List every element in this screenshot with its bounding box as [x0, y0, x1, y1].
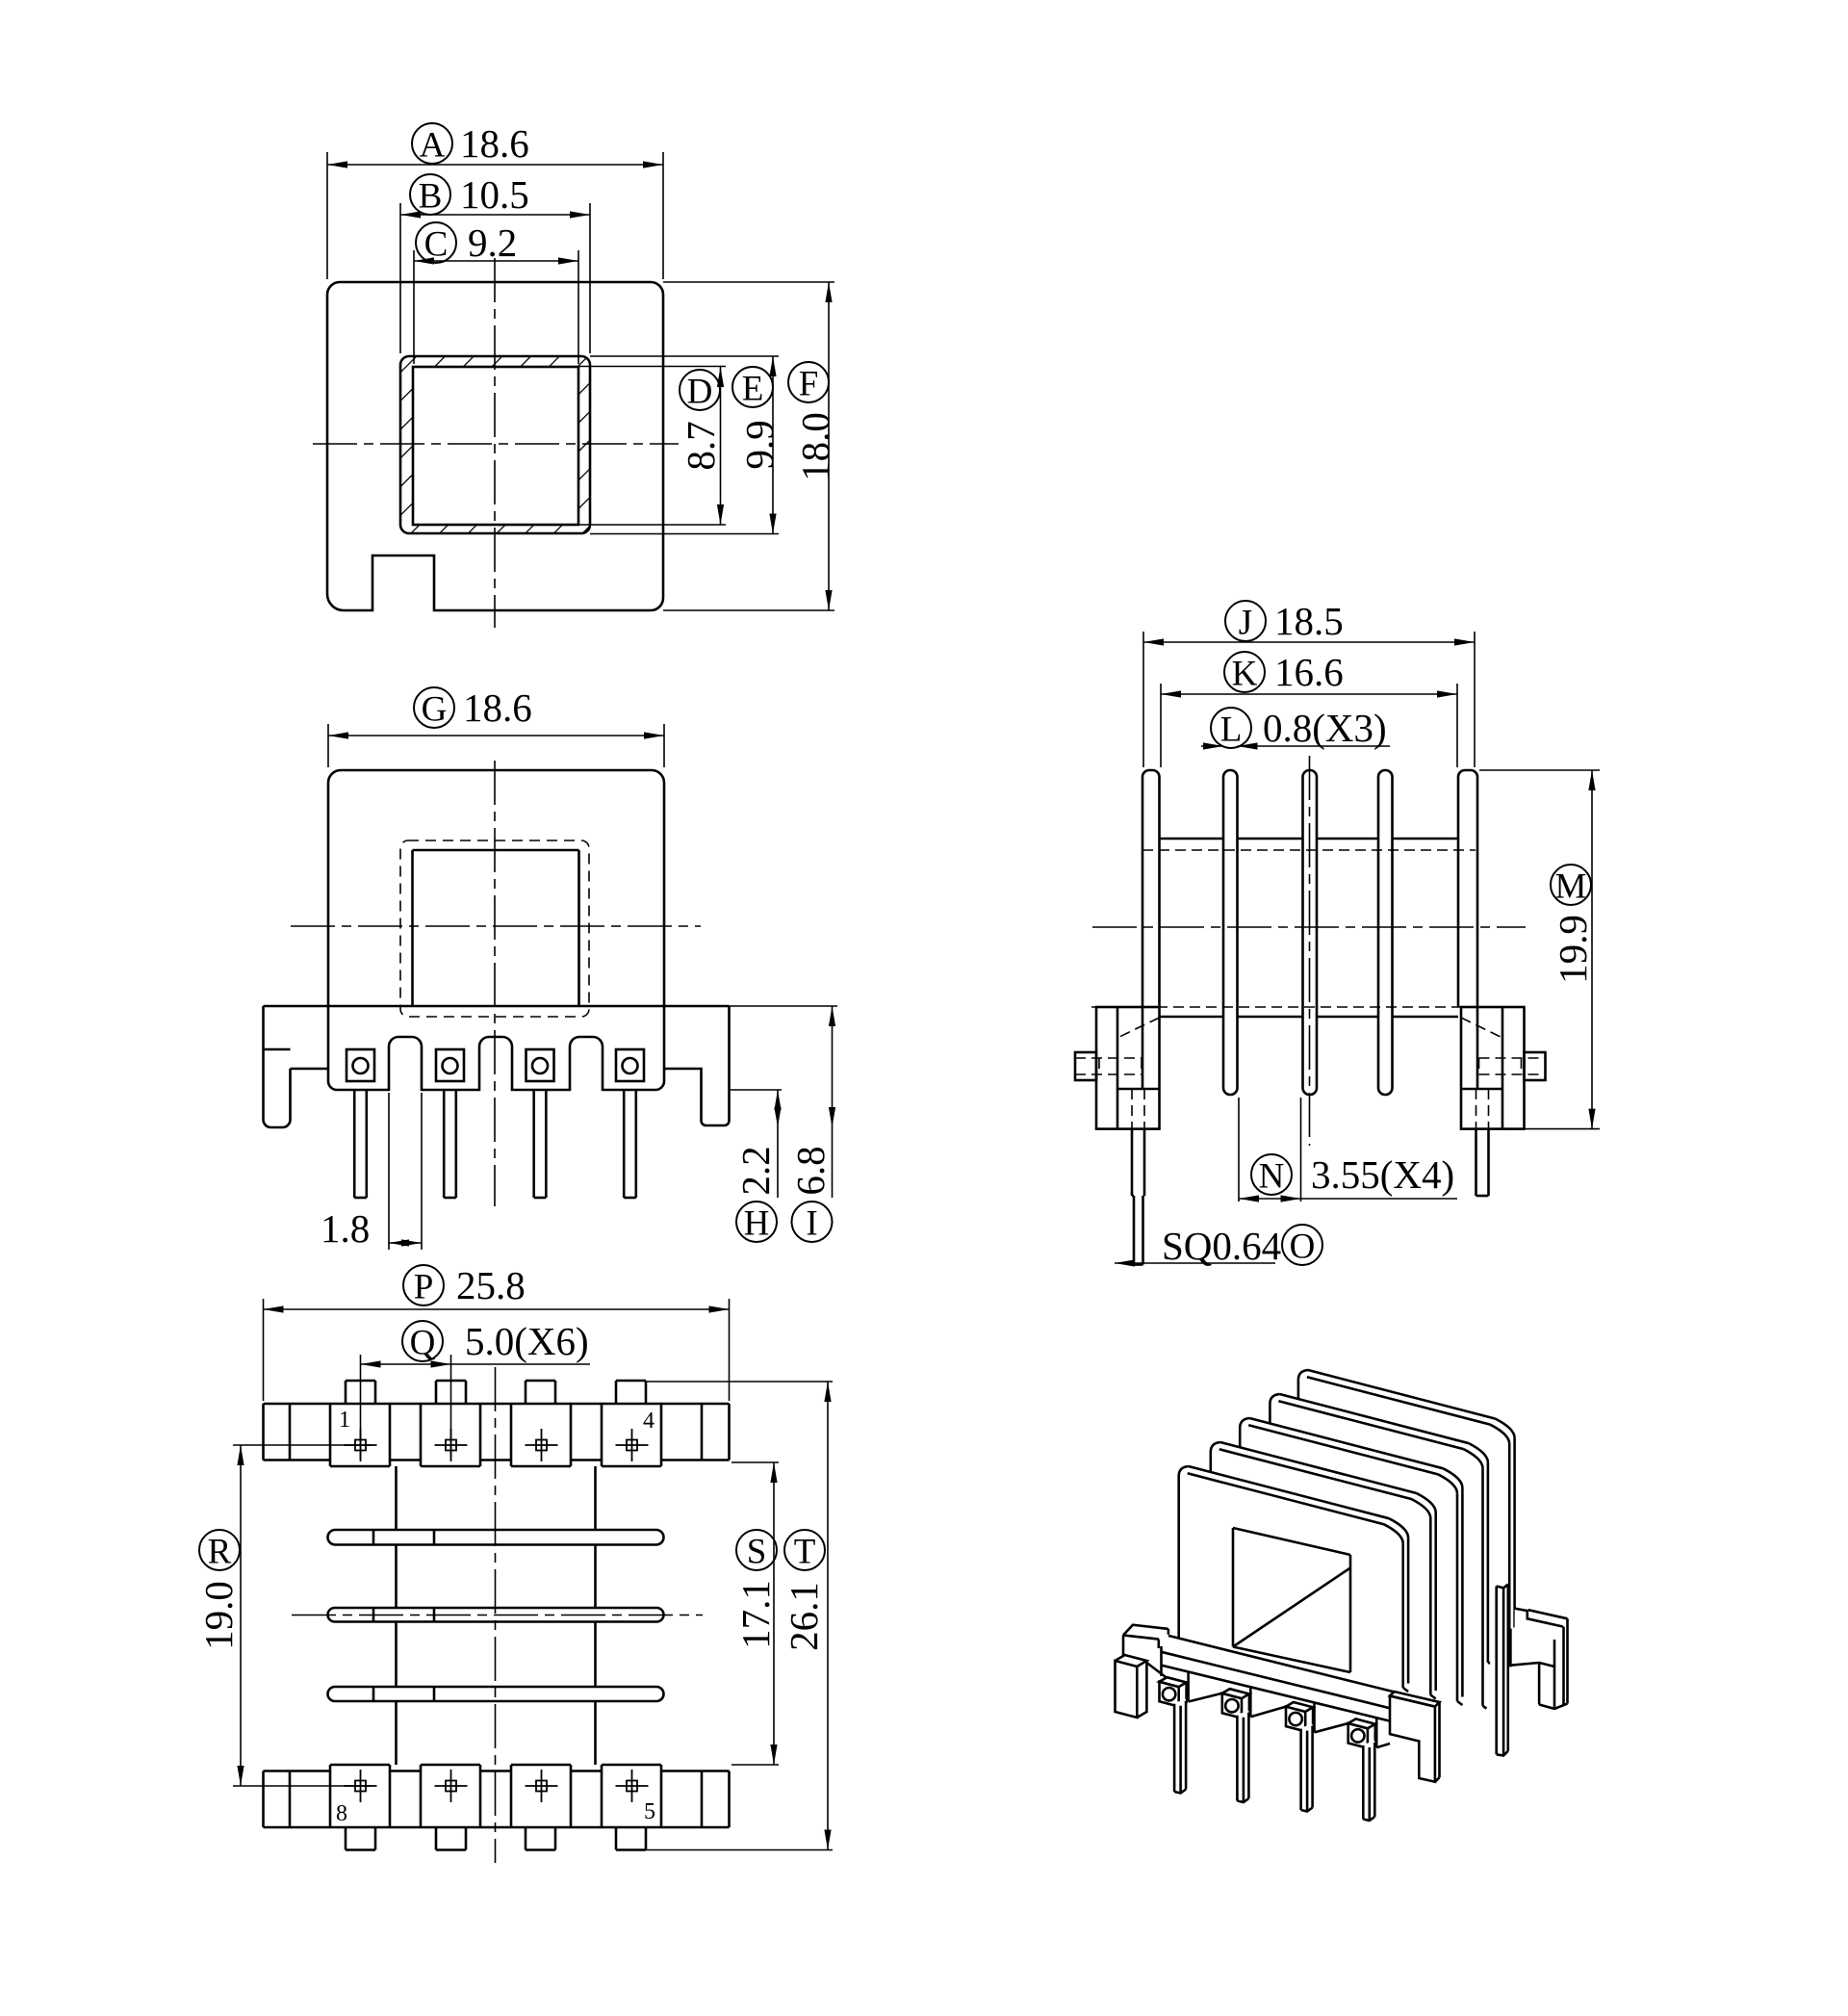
bottom view: dim Q 5.0(X6) [402, 1321, 443, 1361]
svg-text:0.8(X3): 0.8(X3) [1263, 706, 1387, 750]
side view: dim K 16.6 [1224, 652, 1265, 692]
front view: pin collars with holes [346, 1049, 374, 1081]
svg-text:I: I [806, 1204, 817, 1244]
svg-text:3.55(X4): 3.55(X4) [1311, 1152, 1454, 1197]
svg-text:S: S [747, 1533, 767, 1572]
side view: winding barrel top edge [1160, 838, 1224, 840]
front view: pin mount strip bottom with slots [328, 1037, 664, 1090]
svg-text:F: F [799, 365, 819, 404]
side view: hidden base top line [1091, 1006, 1462, 1008]
svg-text:18.0: 18.0 [793, 412, 837, 481]
bottom view: bottom collar tabs [346, 1848, 375, 1851]
svg-text:N: N [1259, 1157, 1285, 1197]
side view: left pin base block [1096, 1007, 1160, 1129]
bottom view: flange edge bars [328, 1530, 664, 1545]
svg-text:L: L [1220, 711, 1243, 750]
svg-text:6.8: 6.8 [788, 1146, 833, 1195]
top view: horizontal centerline [313, 443, 679, 445]
front view: pins [353, 1090, 356, 1198]
svg-text:5.0(X6): 5.0(X6) [465, 1319, 589, 1363]
svg-text:P: P [414, 1268, 434, 1307]
front view: dim H 2.2 [736, 1202, 777, 1242]
side view: dim O SQ0.64 [1282, 1225, 1322, 1265]
side view: outer flange left [1142, 770, 1160, 1089]
top view: dim F 18.0 [788, 362, 829, 402]
side view: left pin [1131, 1129, 1134, 1196]
svg-text:O: O [1290, 1228, 1316, 1267]
side view: right pin [1475, 1129, 1477, 1196]
iso: flange plate 5 [1298, 1370, 1515, 1668]
svg-text:SQ0.64: SQ0.64 [1162, 1224, 1281, 1268]
svg-text:R: R [208, 1533, 232, 1572]
svg-text:8: 8 [336, 1801, 347, 1826]
front view: winding tube inner square (solid) [413, 849, 579, 852]
iso: flange plate 4 [1270, 1394, 1488, 1709]
front view: centerlines [291, 925, 701, 927]
svg-text:25.8: 25.8 [456, 1263, 526, 1307]
top view: dim E 9.9 [732, 367, 773, 407]
side view: middle flanges [1223, 770, 1238, 1095]
front view: dim I 6.8 [792, 1202, 833, 1242]
iso: rear pin [1497, 1585, 1508, 1755]
svg-text:16.6: 16.6 [1274, 650, 1344, 694]
iso: back-right wing bracket [1515, 1609, 1568, 1709]
front view: right wing with tab [664, 1006, 730, 1125]
svg-text:A: A [420, 126, 446, 166]
bottom view: pin crosshairs top row [345, 1444, 377, 1446]
iso: core tube inner corner [1233, 1568, 1350, 1647]
bottom view: barrel side edges [395, 1466, 398, 1530]
front view: base flange top edge [264, 1005, 730, 1008]
svg-text:9.2: 9.2 [468, 220, 517, 265]
bottom view: dim P 25.8 [403, 1265, 444, 1305]
svg-text:1: 1 [339, 1408, 350, 1433]
bottom view: top header row [264, 1403, 730, 1406]
side view: winding barrel bottom edge [1160, 1016, 1224, 1019]
svg-text:4: 4 [643, 1409, 654, 1434]
iso: pin collars [1160, 1682, 1179, 1707]
top view: dim D 8.7 [680, 370, 720, 410]
bottom view: top collar tabs [346, 1380, 375, 1383]
side view: centerlines [1092, 926, 1526, 928]
svg-text:D: D [687, 373, 713, 412]
iso: core window in front plate [1232, 1528, 1235, 1647]
svg-text:Q: Q [410, 1324, 436, 1363]
iso: back-left wing post [1123, 1625, 1168, 1658]
iso: flange plate 2 [1211, 1442, 1436, 1698]
bottom view: dim R 19.0 [199, 1530, 240, 1570]
svg-text:C: C [424, 225, 449, 265]
bottom view: centerlines [292, 1615, 703, 1616]
svg-text:E: E [742, 370, 764, 409]
iso: base near rail [1162, 1636, 1395, 1721]
side view: dim L 0.8(X3) [1211, 708, 1251, 748]
bottom view: dim T 26.1 [784, 1530, 825, 1570]
iso: front-left wing post [1116, 1655, 1147, 1718]
iso: front-right wing [1390, 1692, 1440, 1782]
bottom view: dim S 17.1 [736, 1530, 777, 1570]
svg-text:18.6: 18.6 [460, 121, 529, 166]
svg-text:10.5: 10.5 [460, 172, 529, 217]
svg-text:K: K [1232, 655, 1258, 694]
side view: dim J 18.5 [1225, 601, 1266, 641]
front view: core outline (dotted) [400, 840, 589, 1017]
svg-text:19.9: 19.9 [1551, 915, 1595, 984]
svg-text:18.5: 18.5 [1274, 599, 1344, 643]
side view: outer flange right [1458, 770, 1477, 1089]
iso: flange plate 3 [1240, 1418, 1462, 1704]
svg-text:H: H [744, 1204, 770, 1244]
svg-text:9.9: 9.9 [737, 420, 782, 469]
top view: vertical centerline [494, 258, 496, 628]
side view: left collar tab [1075, 1052, 1096, 1080]
side view: dim N 3.55(X4) [1251, 1154, 1292, 1195]
iso: slot bays [1146, 1663, 1179, 1688]
front view: dim G 18.6 [414, 687, 454, 728]
bottom view: bottom header row [264, 1826, 730, 1829]
top view: dim B 10.5 [410, 174, 450, 215]
svg-text:M: M [1555, 867, 1587, 907]
iso: flange plate 1 [1179, 1466, 1408, 1691]
side view: dim M 19.9 [1551, 865, 1591, 905]
svg-text:2.2: 2.2 [733, 1146, 778, 1195]
svg-text:J: J [1239, 604, 1252, 643]
front view: body outline [341, 770, 664, 1069]
svg-text:B: B [419, 177, 443, 217]
side view: barrel hidden top line [1142, 849, 1476, 851]
top view: hatched core tube section [400, 356, 590, 533]
side view: left hidden pin in block [1131, 1089, 1133, 1129]
top view: dim C 9.2 [416, 222, 456, 263]
svg-text:8.7: 8.7 [679, 421, 723, 470]
front view: left wing with tab [262, 1006, 265, 1049]
iso: pins front row [1174, 1699, 1186, 1792]
top view: bobbin flange plate outline [327, 282, 663, 610]
svg-text:5: 5 [644, 1799, 655, 1824]
side view: right hidden pin in block [1476, 1089, 1477, 1129]
side view: right collar tab [1525, 1052, 1546, 1080]
side view: right pin base block [1461, 1007, 1525, 1129]
svg-text:19.0: 19.0 [196, 1581, 241, 1650]
svg-text:G: G [422, 690, 448, 730]
bottom view: pin crosshairs bottom row [345, 1785, 377, 1787]
svg-text:1.8: 1.8 [321, 1206, 370, 1251]
svg-text:T: T [794, 1533, 816, 1572]
svg-text:18.6: 18.6 [463, 685, 532, 730]
svg-text:17.1: 17.1 [733, 1580, 778, 1649]
top view: dim A 18.6 [412, 123, 452, 164]
svg-text:26.1: 26.1 [782, 1582, 826, 1651]
